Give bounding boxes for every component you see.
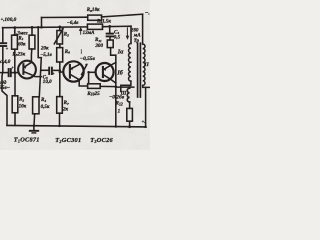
- wire riser rail to R4: [38, 27, 41, 97]
- junction C3 wire on riser: [40, 69, 42, 71]
- potentiometer R5: [59, 27, 61, 31]
- wire rail drop to primary top: [130, 26, 132, 43]
- resistor R12: [129, 102, 131, 108]
- junction R5 top on rail: [58, 26, 61, 29]
- junction R10 to vertical A: [114, 85, 117, 88]
- wire vertical A right of T3: [115, 55, 117, 127]
- wire secondary bottom to edge: [143, 85, 150, 87]
- transistor T2: [63, 61, 83, 81]
- junction vertical A on bottom rail: [115, 125, 118, 128]
- junction upper-line tap on rail: [40, 26, 43, 29]
- resistor R1: [14, 28, 16, 36]
- resistor R10: [88, 84, 101, 89]
- wire T2 emitter diagonal: [82, 65, 87, 75]
- arrow 280mA: [126, 28, 128, 38]
- resistor R3: [31, 27, 33, 35]
- wire T3 base: [89, 71, 96, 73]
- junction R7 on bottom rail: [58, 125, 61, 128]
- junction T1 base node: [14, 71, 17, 74]
- capacitor C4: [109, 26, 111, 33]
- wire upper minus line: [42, 16, 88, 18]
- wire T2 base stub: [60, 71, 64, 73]
- stray tick above -0,55v: [80, 49, 82, 54]
- wire T1 collector elbow: [34, 75, 42, 78]
- resistor R7: [57, 97, 63, 114]
- wire T2 collector to R10: [79, 80, 87, 86]
- arrow up 13mA: [80, 28, 82, 35]
- capacitor C1 lead bottom: [2, 47, 7, 126]
- junction right drop on bottom rail: [144, 126, 147, 128]
- resistor R4: [33, 97, 39, 114]
- junction riser on rail: [37, 26, 40, 29]
- junction dots: [13, 25, 146, 128]
- transistor T3: [96, 63, 114, 81]
- junction C3 to divider: [59, 69, 62, 72]
- junction T2 base node: [59, 71, 62, 74]
- transformer winding III coil: [127, 88, 129, 102]
- wire bottom rail: [7, 125, 146, 127]
- capacitor C1 plates: [0, 42, 6, 44]
- transformer primary Ia coil: [129, 44, 131, 63]
- wire T3 base to R10: [88, 72, 90, 84]
- junction R12 on bottom rail: [128, 125, 131, 128]
- resistor R8: [88, 15, 102, 20]
- wire right vertical to secondary: [142, 14, 144, 44]
- resistor R11: [107, 40, 113, 48]
- junction winding III top: [128, 86, 131, 89]
- transformer primary Ib coil: [129, 62, 131, 81]
- transformer secondary II coil: [143, 44, 145, 85]
- wire vertical joining upper line to rail: [41, 18, 43, 28]
- capacitor C2 input: [0, 72, 8, 74]
- wire primary bottom return: [121, 81, 131, 91]
- junction R3 top on rail: [31, 26, 34, 29]
- junction C4 top on rail: [108, 25, 111, 28]
- resistor R9: [87, 24, 102, 29]
- wire right drop to bottom rail: [145, 87, 147, 127]
- capacitor C1 lead top: [2, 28, 4, 43]
- capacitor C3: [42, 69, 49, 71]
- resistor R6: [57, 48, 63, 62]
- transformer core: [137, 43, 139, 97]
- junction ground on bottom rail: [33, 124, 36, 127]
- wire node line right: [116, 86, 134, 88]
- transistor T1: [18, 61, 36, 79]
- ground: [33, 126, 35, 131]
- junction R1 top on rail: [13, 26, 16, 29]
- scan grain overlay: [0, 0, 150, 150]
- junction T3 base node: [87, 71, 90, 74]
- wire main rail: [3, 26, 88, 29]
- resistor R2: [14, 73, 16, 96]
